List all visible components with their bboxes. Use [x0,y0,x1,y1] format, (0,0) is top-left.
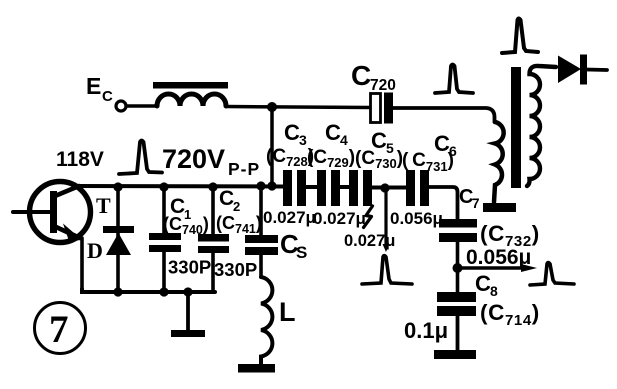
diode D [116,188,120,291]
capacitor CS [259,187,263,236]
label 720Vp-p [162,144,260,179]
label 118V [56,148,104,171]
svg-text:330P: 330P [168,257,211,278]
svg-text:0.027μ: 0.027μ [263,208,316,227]
capacitor C720 [371,94,381,123]
ground C8 [456,316,460,352]
capacitor C3 (C728) [283,170,292,206]
lightning mark [364,206,373,228]
transistor Q1 [30,182,91,243]
node [159,182,168,191]
pulse waveform P2 [435,65,473,94]
pulse waveform P4 [362,256,412,285]
svg-text:118V: 118V [56,148,104,171]
capacitor C6 (C731) [406,170,415,206]
label Ec [86,73,113,105]
svg-text:330P: 330P [214,259,257,280]
pulse waveform P3 [502,19,538,54]
wire [340,185,349,189]
label 0.056u [466,246,531,269]
node [267,181,276,190]
wire emitter down [80,238,84,291]
terminal Ec [116,101,126,111]
ground main [186,292,190,331]
svg-text:C: C [284,120,300,145]
svg-text:S: S [296,243,307,262]
node [183,287,192,296]
svg-text:720V: 720V [162,144,225,174]
wire bottom rail [82,289,215,292]
ground transformer [483,203,516,212]
svg-text:720: 720 [370,77,396,94]
circled 7 [35,303,86,354]
svg-text:4: 4 [340,132,348,148]
node [159,287,168,296]
capacitor C5 (C730) [349,170,358,206]
pulse waveform P1 [119,141,162,175]
wire main rail [76,184,283,189]
wire with arrow [462,266,523,269]
svg-text:1: 1 [184,207,191,222]
wire [226,107,370,108]
capacitor C7 (C732) [439,219,477,228]
inductor L [261,277,272,364]
svg-text:7: 7 [472,196,480,211]
label D [87,238,103,263]
diode D2 rectifier [558,56,581,84]
wire [127,104,158,108]
svg-text:3: 3 [299,132,307,148]
svg-text:C: C [102,88,113,105]
core bar [153,82,228,89]
svg-text:C: C [325,120,341,145]
wire [372,186,406,190]
capacitor C2 (C741) [211,188,215,235]
capacitor C1 (C740) [162,188,166,234]
svg-text:E: E [86,73,101,99]
svg-text:L: L [279,297,296,327]
svg-text:T: T [96,193,111,218]
svg-text:0.056μ: 0.056μ [390,209,443,228]
wire [456,242,460,292]
wire [270,107,274,186]
wire [306,185,317,189]
pulse waveform P5 [530,263,574,286]
capacitor C4 (C729) [317,170,326,206]
wire [429,187,458,220]
svg-text:C: C [219,187,234,210]
node [256,181,265,190]
svg-text:8: 8 [490,283,498,299]
svg-text:D: D [87,238,103,263]
transformer primary winding [494,122,504,202]
svg-text:5: 5 [386,140,394,156]
svg-text:2: 2 [233,199,240,214]
wire test point [384,188,387,244]
wire [392,108,495,122]
svg-text:0.1μ: 0.1μ [404,318,448,343]
svg-text:7: 7 [49,308,69,351]
transformer secondary winding [527,66,556,186]
svg-text:0.027μ: 0.027μ [313,209,366,228]
capacitor C8 (C714) [437,292,476,302]
label 0.027u test [344,232,395,250]
svg-text:C: C [475,271,491,296]
node [267,102,277,112]
svg-text:P-P: P-P [228,159,260,179]
node [453,263,463,273]
svg-text:0.027μ: 0.027μ [344,232,395,250]
node [113,287,122,296]
node [380,183,389,192]
inductor input choke [157,94,226,106]
node [113,182,122,191]
transformer core [511,67,521,188]
svg-text:C: C [351,60,371,91]
label T [96,193,111,218]
node [208,182,217,191]
ground L [238,364,275,373]
